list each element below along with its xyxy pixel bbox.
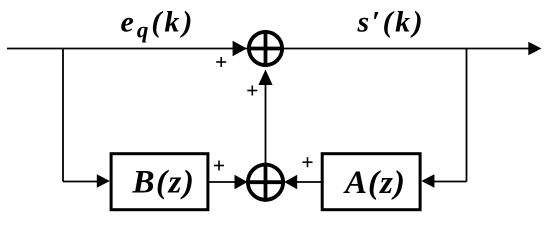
block A1: A(z) box bbox=[322, 154, 420, 210]
block B1: B(z) box bbox=[111, 154, 208, 210]
arrowhead: into B(z) left side bbox=[97, 174, 110, 187]
label: plus sign at top adder bottom input bbox=[247, 86, 257, 96]
wire: right branch from main line down to A(z) input bbox=[434, 49, 467, 182]
label: plus sign at top adder left input bbox=[216, 57, 226, 67]
summer U2: lower adder circle with cross bbox=[246, 163, 285, 202]
arrowhead: output arrow at right end of main line bbox=[528, 42, 541, 56]
label: plus sign at lower adder right input bbox=[303, 157, 313, 167]
wire: lower adder output up to top adder bbox=[265, 84, 267, 163]
wire: left branch from main line down to B(z) input bbox=[63, 49, 98, 182]
wire: main horizontal signal line bbox=[7, 48, 529, 50]
svg-text:B(z): B(z) bbox=[132, 165, 196, 201]
arrowhead: into lower adder from right bbox=[284, 175, 297, 189]
wire: B(z) output to lower adder bbox=[209, 181, 237, 183]
arrowhead: into lower adder from left bbox=[235, 175, 248, 189]
label: plus sign at lower adder left input bbox=[214, 161, 224, 171]
svg-text:eq(k): eq(k) bbox=[121, 6, 196, 43]
summer U1: top adder circle with cross bbox=[247, 30, 284, 67]
arrowhead: into A(z) right side bbox=[421, 174, 434, 187]
arrowhead: into top adder from below bbox=[258, 70, 272, 86]
svg-text:s′(k): s′(k) bbox=[357, 6, 426, 39]
wire: A(z) output to lower adder bbox=[295, 181, 322, 183]
svg-text:A(z): A(z) bbox=[343, 165, 406, 201]
arrowhead: input into top adder from left bbox=[233, 41, 247, 57]
